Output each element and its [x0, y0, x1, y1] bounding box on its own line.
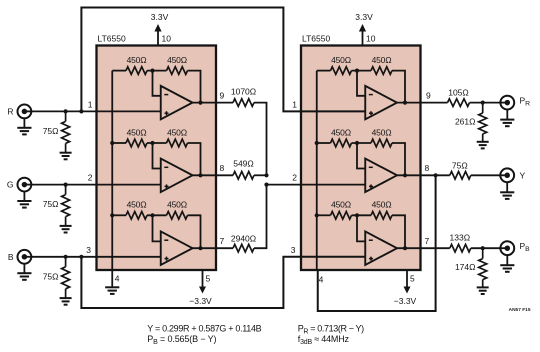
input connector R — [18, 105, 33, 119]
svg-text:450Ω: 450Ω — [167, 200, 187, 210]
svg-text:450Ω: 450Ω — [127, 127, 147, 137]
termination resistor 75Ω (B input) — [62, 257, 70, 298]
pin label 10 (U2) — [366, 34, 376, 44]
junction: B termination tap — [64, 255, 68, 259]
pin label 9 (U2) — [426, 90, 431, 100]
label 261Ω — [455, 116, 476, 126]
junction: U2C inverting-input node — [355, 213, 359, 217]
svg-text:5: 5 — [206, 274, 211, 284]
feedback resistor 450Ω (U2C input side) — [331, 212, 352, 220]
feedback resistor 450Ω (U2A feedback side) — [371, 67, 392, 75]
pin label 7 (U2) — [425, 236, 430, 246]
label 75Ω (B input) — [43, 271, 59, 281]
wire: U2 pin 8 to 75Ω — [421, 174, 450, 176]
wire: U2B output — [397, 174, 421, 176]
svg-text:9: 9 — [426, 90, 431, 100]
op-amp U2C — [365, 231, 397, 265]
svg-text:450Ω: 450Ω — [372, 200, 392, 210]
pin label 1 (U2) — [292, 99, 297, 109]
wire: U1C output — [193, 247, 217, 249]
label U2 LT6550 — [302, 34, 330, 44]
junction: U1B output node — [198, 173, 202, 177]
pin label 2 (U1) — [88, 172, 93, 182]
matrix resistor 2940Ω (B channel) — [233, 244, 254, 252]
svg-text:549Ω: 549Ω — [233, 158, 254, 168]
svg-text:450Ω: 450Ω — [372, 55, 392, 65]
svg-text:450Ω: 450Ω — [331, 55, 351, 65]
series resistor 133Ω (PB) — [450, 244, 471, 252]
wire: U2 pin 7 to 133Ω — [421, 247, 450, 249]
svg-text:75Ω: 75Ω — [452, 160, 468, 170]
junction: PB divider tap — [481, 246, 485, 250]
junction: U2 rail / amp C feedback — [315, 213, 319, 217]
wire: U1B node to inverting input — [153, 143, 161, 169]
wire: U1 pin 7 to matrix resistor — [216, 247, 233, 249]
svg-text:Y = 0.299R + 0.587G + 0.114B: Y = 0.299R + 0.587G + 0.114B — [147, 323, 261, 333]
pin label 9 (U1) — [220, 90, 225, 100]
feedback resistor 450Ω (U2C feedback side) — [371, 212, 392, 220]
wire: B input line — [31, 256, 161, 258]
label 450Ω (U2C feedback side) — [372, 200, 392, 210]
svg-text:450Ω: 450Ω — [331, 200, 351, 210]
wire: U2C node to inverting input — [357, 215, 365, 241]
junction: R termination tap — [64, 109, 68, 113]
svg-text:105Ω: 105Ω — [448, 88, 469, 98]
label 1070Ω — [231, 87, 256, 97]
ground (connector PB) — [500, 255, 514, 272]
label 2940Ω — [231, 233, 256, 243]
feedback resistor 450Ω (U2A input side) — [331, 67, 352, 75]
junction: U1C output node — [198, 246, 202, 250]
wire: 2940Ω to summing node — [254, 185, 267, 249]
label 105Ω — [448, 88, 469, 98]
output connector Y — [499, 168, 514, 182]
ground (174Ω) — [477, 287, 489, 294]
wire: 549Ω to summing node — [254, 174, 267, 176]
matrix resistor 1070Ω (R channel) — [233, 99, 254, 107]
op-amp U2B — [365, 159, 397, 193]
svg-text:174Ω: 174Ω — [455, 262, 476, 272]
junction: U1A output node — [198, 101, 202, 105]
junction: U2C output node — [403, 246, 407, 250]
feedback resistor 450Ω (U2B feedback side) — [371, 139, 392, 147]
label 450Ω (U1A feedback side) — [167, 55, 187, 65]
equation: f3dB — [298, 334, 350, 346]
label 3.3V (U2) — [355, 12, 373, 22]
svg-text:9: 9 — [220, 90, 225, 100]
equation: PB — [147, 334, 216, 346]
op-amp U1A — [161, 86, 193, 120]
feedback resistor 450Ω (U1B input side) — [126, 139, 147, 147]
power 3.3V arrow (U1 pin 10) — [154, 24, 161, 46]
svg-text:5: 5 — [410, 274, 415, 284]
wire: U1A node to inverting input — [153, 71, 161, 96]
wire: R input line — [31, 110, 161, 112]
IC U1 LT6550 (left triple amplifier) body — [97, 46, 217, 271]
svg-text:261Ω: 261Ω — [455, 116, 476, 126]
wire: U2B node to inverting input — [357, 143, 365, 169]
pin label 1 (U1) — [88, 99, 93, 109]
termination resistor 75Ω (R input) — [62, 111, 70, 152]
svg-text:−3.3V: −3.3V — [189, 296, 212, 306]
feedback resistor 450Ω (U1B feedback side) — [167, 139, 188, 147]
pin label 8 (U1) — [220, 163, 225, 173]
svg-text:3.3V: 3.3V — [151, 12, 169, 22]
pin label 8 (U2) — [425, 163, 430, 173]
output connector PB — [499, 241, 514, 255]
op-amp U2A — [365, 86, 397, 120]
ground (connector PR) — [500, 110, 514, 127]
ground (connector Y) — [500, 182, 514, 199]
wire: U1 feedback common rail (pin 4 rail) — [111, 71, 113, 270]
junction: summing node to U2 pin 2 — [264, 183, 268, 187]
ground (connector B) — [17, 264, 31, 280]
label PB output — [520, 241, 531, 253]
junction: U1A inverting-input node — [150, 69, 154, 73]
label B input — [8, 252, 14, 262]
svg-text:1: 1 — [292, 99, 297, 109]
wire: 105Ω to PR connector — [470, 102, 501, 104]
wire: U2A feedback network rail — [317, 71, 405, 103]
wire: summing node to U2 pin 2 — [267, 184, 366, 186]
feedback resistor 450Ω (U1C input side) — [126, 212, 147, 220]
label R input — [7, 106, 13, 116]
wire: U1C node to inverting input — [153, 215, 161, 241]
junction: U2 rail / amp B feedback — [315, 141, 319, 145]
wire: U2B feedback network rail — [317, 143, 405, 175]
label 450Ω (U2A feedback side) — [372, 55, 392, 65]
op-amp U1B — [161, 159, 193, 193]
ground (261Ω) — [477, 142, 489, 149]
junction: U1B inverting-input node — [150, 141, 154, 145]
pin label 5 (U1) — [206, 274, 211, 284]
svg-text:2: 2 — [292, 172, 297, 182]
svg-text:7: 7 — [425, 236, 430, 246]
svg-text:133Ω: 133Ω — [450, 232, 471, 242]
series resistor 105Ω (PR) — [448, 99, 470, 107]
svg-text:10: 10 — [162, 34, 172, 44]
pin label 10 (U1) — [162, 34, 172, 44]
ground (75Ω G) — [60, 226, 72, 233]
label 450Ω (U1C feedback side) — [167, 200, 187, 210]
matrix resistor 549Ω (G channel) — [233, 172, 254, 180]
junction: Y output feedback tap — [434, 173, 438, 177]
wire: U1 pin 9 to matrix resistor — [216, 102, 233, 104]
input connector G — [18, 178, 33, 192]
wire: U2 pin 9 to 105Ω — [421, 102, 448, 104]
wire: 133Ω to PB connector — [471, 247, 501, 249]
wire: U2A node to inverting input — [357, 71, 365, 96]
wire: U1B feedback network rail — [112, 143, 200, 175]
wire: U1B output — [193, 174, 217, 176]
pin label 4 (U1) — [115, 274, 120, 284]
svg-text:3.3V: 3.3V — [355, 12, 373, 22]
label U1 LT6550 — [98, 34, 126, 44]
feedback resistor 450Ω (U1A feedback side) — [167, 67, 188, 75]
svg-text:LT6550: LT6550 — [98, 34, 126, 44]
svg-text:4: 4 — [115, 274, 120, 284]
pin label 7 (U1) — [220, 236, 225, 246]
shunt resistor 261Ω (PR) — [479, 103, 487, 142]
wire: U1A output — [193, 102, 217, 104]
junction: B line to bottom loop — [79, 255, 83, 259]
series resistor 75Ω (Y) — [450, 172, 471, 180]
pin label 3 (U2) — [291, 245, 296, 255]
svg-text:75Ω: 75Ω — [43, 126, 59, 136]
ground (connector R) — [17, 118, 31, 134]
svg-text:G: G — [7, 180, 14, 190]
junction: G termination tap — [64, 183, 68, 187]
pin label 3 (U1) — [86, 245, 91, 255]
IC U2 LT6550 (right triple amplifier) body — [301, 46, 421, 271]
svg-text:1: 1 — [88, 99, 93, 109]
power −3.3V arrow (U2 pin 5) — [404, 270, 411, 294]
svg-text:10: 10 — [366, 34, 376, 44]
feedback resistor 450Ω (U2B input side) — [331, 139, 352, 147]
wire: 1070Ω to summing node — [254, 103, 267, 176]
equation: PR — [298, 323, 364, 335]
junction: U1 rail / amp C feedback — [110, 213, 114, 217]
wire: R input over top to U2 pin 1 — [81, 8, 365, 112]
svg-text:3: 3 — [291, 245, 296, 255]
svg-text:2940Ω: 2940Ω — [231, 233, 256, 243]
junction: U2B inverting-input node — [355, 141, 359, 145]
svg-text:B: B — [8, 252, 14, 262]
label 450Ω (U2A input side) — [331, 55, 351, 65]
svg-text:8: 8 — [220, 163, 225, 173]
label G input — [7, 180, 14, 190]
label −3.3V (U1) — [189, 296, 212, 306]
label Y output — [520, 170, 526, 180]
ground (75Ω B) — [60, 298, 72, 305]
wire: U2C output — [397, 247, 421, 249]
svg-text:7: 7 — [220, 236, 225, 246]
svg-text:1070Ω: 1070Ω — [231, 87, 256, 97]
label 450Ω (U1B feedback side) — [167, 127, 187, 137]
svg-text:8: 8 — [425, 163, 430, 173]
svg-text:R: R — [7, 106, 13, 116]
svg-text:450Ω: 450Ω — [167, 55, 187, 65]
wire: U2 feedback common rail (pin 4 rail) — [316, 71, 318, 270]
svg-text:450Ω: 450Ω — [127, 200, 147, 210]
label 133Ω — [450, 232, 471, 242]
svg-text:3: 3 — [86, 245, 91, 255]
wire: U1A feedback network rail — [112, 71, 200, 103]
label 450Ω (U2B feedback side) — [372, 127, 392, 137]
termination resistor 75Ω (G input) — [62, 185, 70, 226]
pin label 4 (U2) — [319, 275, 324, 285]
label 75Ω (G input) — [43, 199, 59, 209]
junction: R line to top loop — [79, 109, 83, 113]
svg-text:Y: Y — [520, 170, 526, 180]
label 450Ω (U2C input side) — [331, 200, 351, 210]
pin label 5 (U2) — [410, 274, 415, 284]
power 3.3V arrow (U2 pin 10) — [359, 24, 366, 46]
output connector PR — [499, 96, 514, 110]
junction: U2A output node — [403, 101, 407, 105]
label 450Ω (U1A input side) — [127, 55, 147, 65]
label 174Ω — [455, 262, 476, 272]
ground (connector G) — [17, 192, 31, 208]
wire: U1 pin 4 to ground — [111, 270, 113, 287]
svg-text:4: 4 — [319, 275, 324, 285]
figure reference AN57 F15 — [509, 307, 531, 313]
wire: Y feedback to U2 pin 4 — [318, 175, 436, 311]
ground (75Ω R) — [60, 153, 72, 160]
power −3.3V arrow (U1 pin 5) — [199, 270, 206, 294]
equation: Y sum — [147, 323, 261, 333]
svg-text:450Ω: 450Ω — [127, 55, 147, 65]
junction: PR divider tap — [481, 101, 485, 105]
svg-text:450Ω: 450Ω — [331, 127, 351, 137]
feedback resistor 450Ω (U1C feedback side) — [167, 212, 188, 220]
junction: U2B output node — [403, 173, 407, 177]
wire: U1C feedback network rail — [112, 215, 200, 248]
label PR output — [520, 96, 531, 108]
junction: U1 rail / amp B feedback — [110, 141, 114, 145]
ground (U1 pin 4) — [105, 287, 119, 294]
svg-text:LT6550: LT6550 — [302, 34, 330, 44]
label 450Ω (U2B input side) — [331, 127, 351, 137]
shunt resistor 174Ω (PB) — [479, 248, 487, 287]
wire: U2C feedback network rail — [317, 215, 405, 248]
wire: U1 pin 8 to matrix resistor — [216, 174, 233, 176]
pin label 2 (U2) — [292, 172, 297, 182]
wire: U2A output — [397, 102, 421, 104]
wire: B input under bottom to U2 pin 3 — [81, 257, 365, 308]
label 450Ω (U1B input side) — [127, 127, 147, 137]
junction: U2A inverting-input node — [355, 69, 359, 73]
junction: U1C inverting-input node — [150, 213, 154, 217]
svg-text:75Ω: 75Ω — [43, 271, 59, 281]
op-amp U1C — [161, 231, 193, 265]
label 450Ω (U1C input side) — [127, 200, 147, 210]
label 75Ω (R input) — [43, 126, 59, 136]
svg-text:75Ω: 75Ω — [43, 199, 59, 209]
junction: summing node upper — [264, 173, 268, 177]
feedback resistor 450Ω (U1A input side) — [126, 67, 147, 75]
label 75Ω (Y output) — [452, 160, 468, 170]
input connector B — [18, 250, 33, 264]
svg-text:AN57 F15: AN57 F15 — [509, 307, 531, 313]
svg-text:2: 2 — [88, 172, 93, 182]
svg-text:−3.3V: −3.3V — [394, 296, 417, 306]
wire: 75Ω to Y connector — [471, 174, 501, 176]
svg-text:450Ω: 450Ω — [372, 127, 392, 137]
label 549Ω — [233, 158, 254, 168]
label −3.3V (U2) — [394, 296, 417, 306]
label 3.3V (U1) — [151, 12, 169, 22]
wire: G input line — [31, 184, 161, 186]
svg-text:450Ω: 450Ω — [167, 127, 187, 137]
